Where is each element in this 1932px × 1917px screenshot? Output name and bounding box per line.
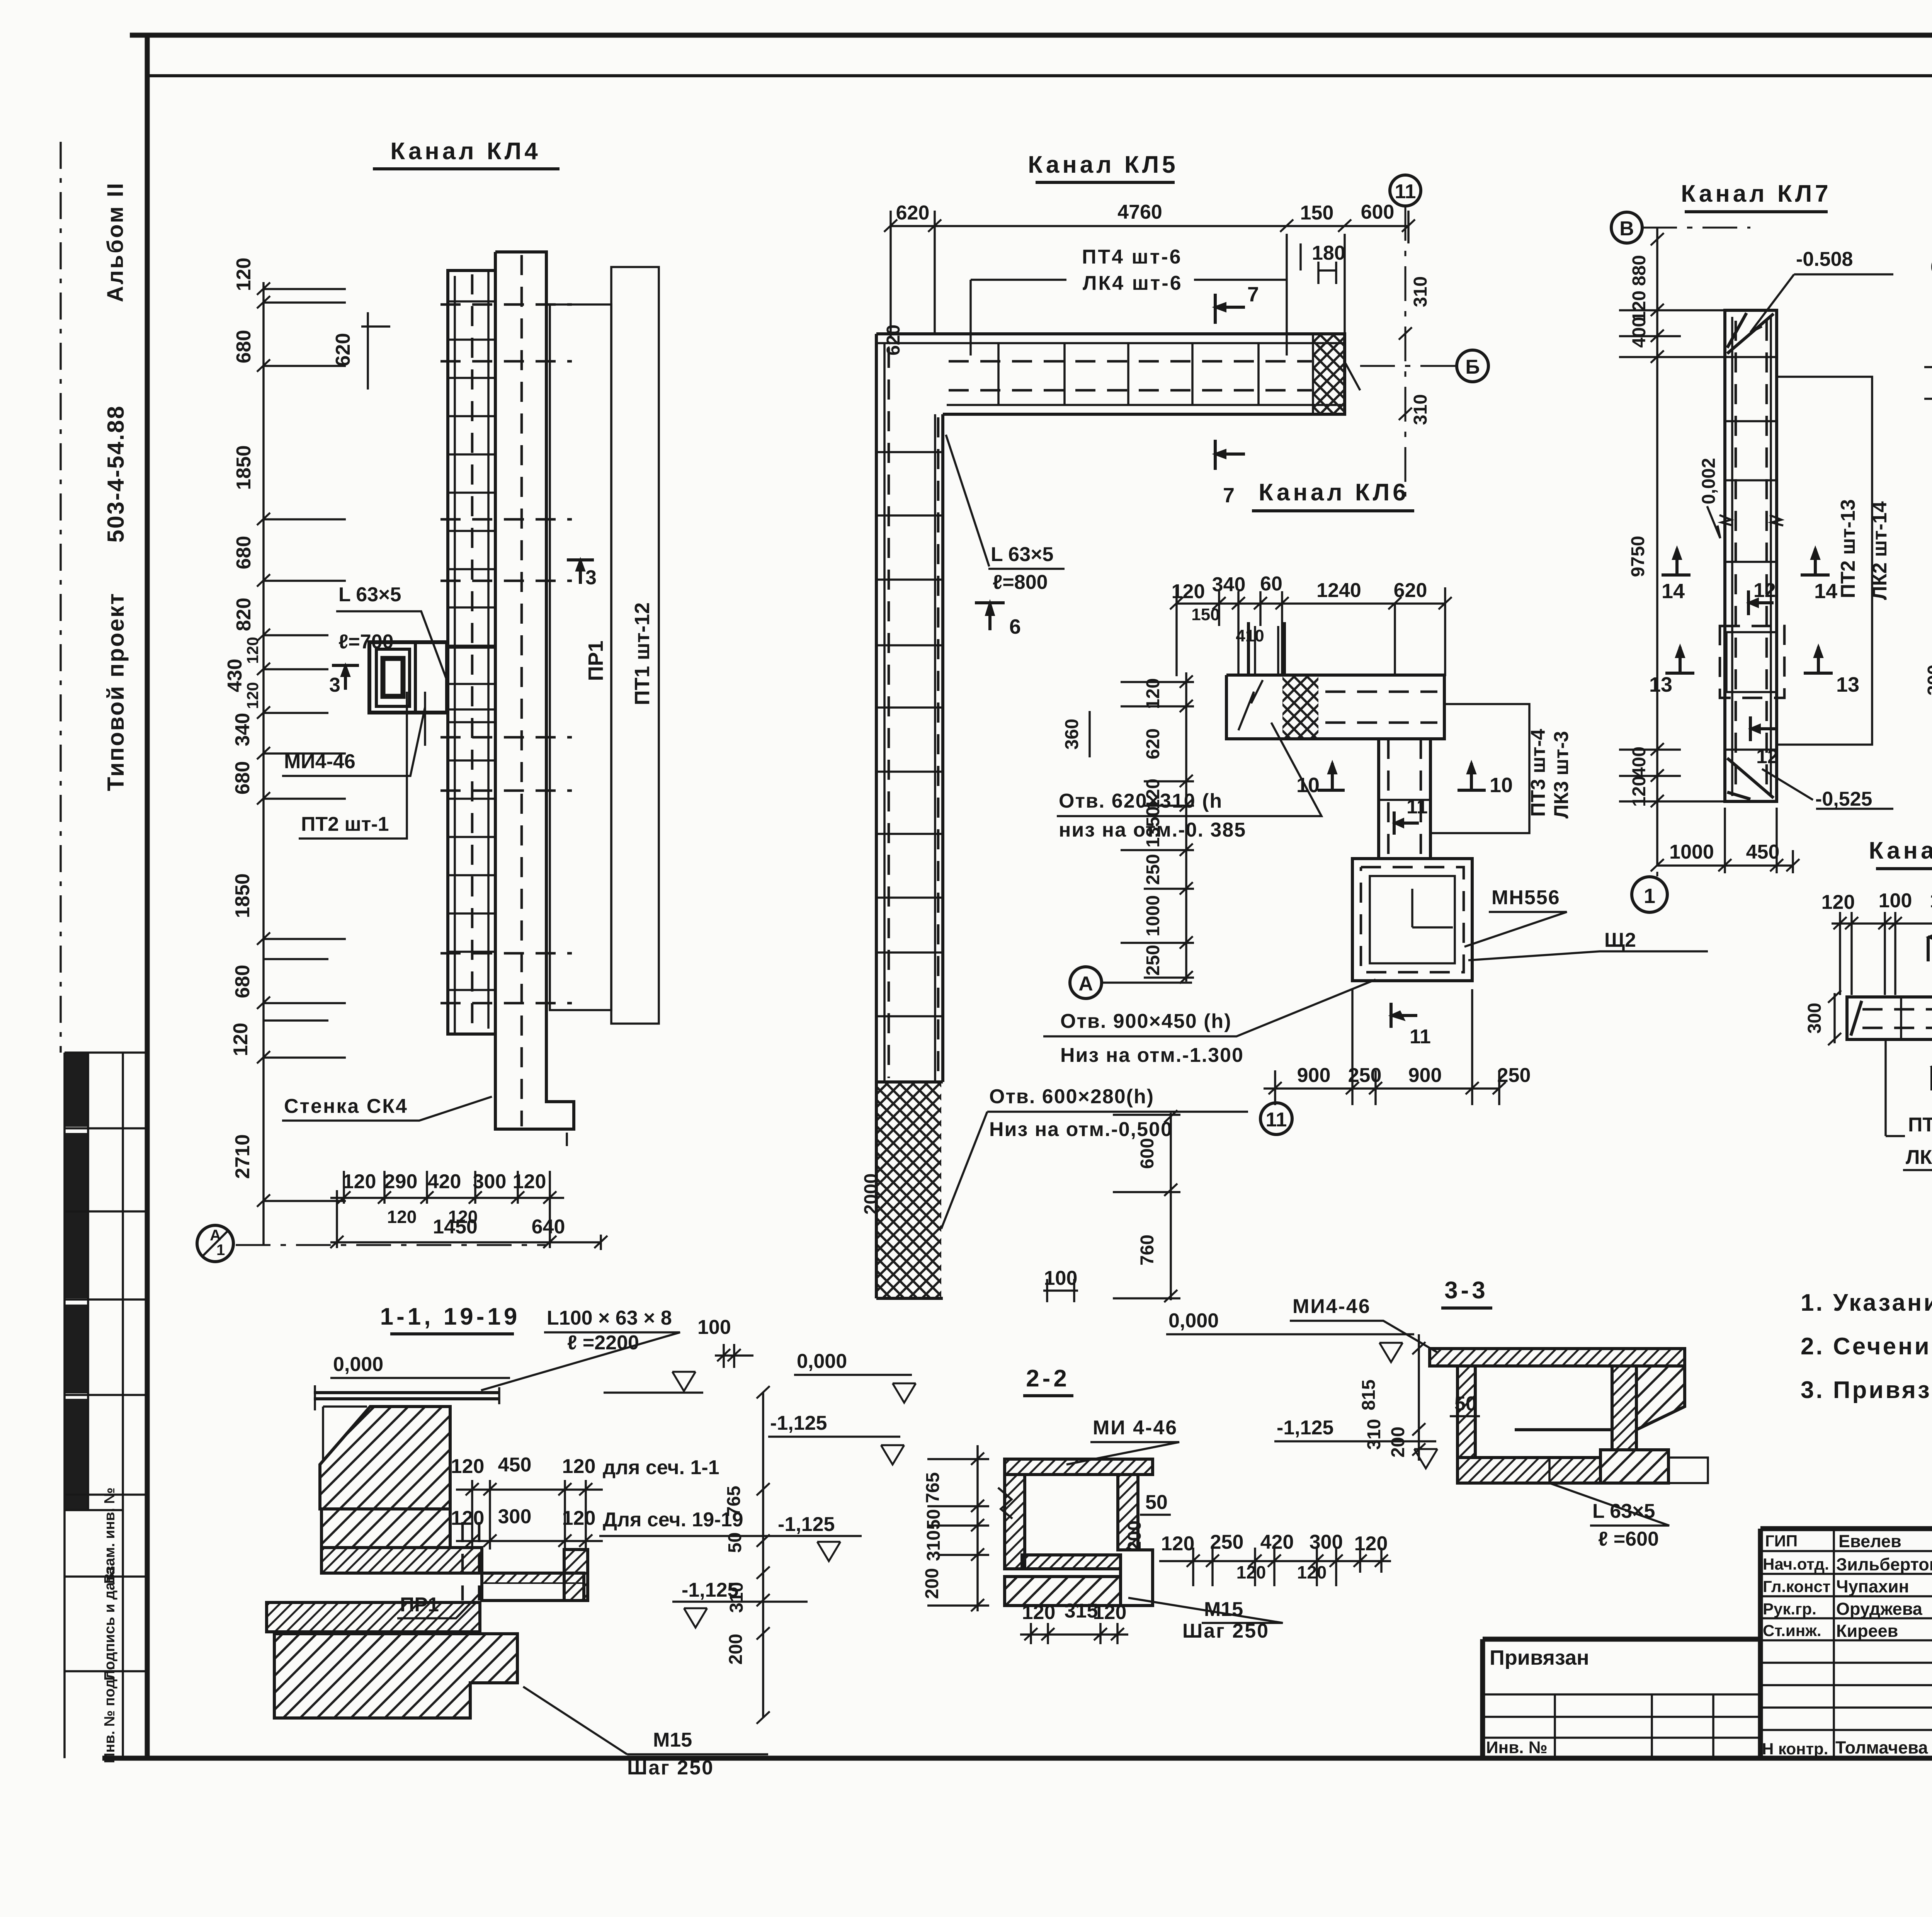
svg-text:300: 300 — [1310, 1531, 1343, 1553]
svg-text:ℓ=800: ℓ=800 — [993, 571, 1048, 594]
svg-text:50: 50 — [1454, 1393, 1477, 1415]
svg-text:для сеч. 1-1: для сеч. 1-1 — [603, 1456, 719, 1479]
svg-text:450: 450 — [1746, 841, 1780, 863]
svg-text:ЛК1шт-3: ЛК1шт-3 — [1906, 1146, 1932, 1169]
svg-text:680: 680 — [231, 965, 254, 998]
svg-text:Чупахин: Чупахин — [1836, 1577, 1909, 1596]
svg-text:420: 420 — [1260, 1531, 1294, 1553]
svg-text:600: 600 — [1361, 201, 1395, 223]
svg-text:120: 120 — [562, 1507, 596, 1529]
svg-text:М15: М15 — [1204, 1598, 1243, 1621]
svg-text:ℓ=700: ℓ=700 — [338, 631, 394, 653]
svg-text:3: 3 — [329, 674, 340, 696]
svg-text:640: 640 — [532, 1216, 565, 1238]
svg-text:Для сеч. 19-19: Для сеч. 19-19 — [603, 1509, 743, 1531]
svg-text:Нач.отд.: Нач.отд. — [1763, 1555, 1829, 1573]
svg-text:400: 400 — [1629, 747, 1650, 777]
svg-text:120: 120 — [1161, 1533, 1195, 1555]
svg-text:13: 13 — [1649, 673, 1672, 696]
svg-text:ЛК4 шт-6: ЛК4 шт-6 — [1083, 272, 1183, 294]
svg-text:ГИП: ГИП — [1765, 1532, 1798, 1550]
svg-text:11: 11 — [1266, 1109, 1287, 1131]
svg-text:250: 250 — [1497, 1064, 1531, 1087]
svg-text:Типовой проект: Типовой проект — [103, 592, 129, 791]
svg-text:120: 120 — [243, 682, 262, 709]
svg-text:10: 10 — [1490, 774, 1513, 797]
svg-text:ПР1: ПР1 — [400, 1594, 439, 1616]
svg-text:120: 120 — [1821, 891, 1855, 913]
svg-text:880: 880 — [1629, 255, 1650, 286]
svg-text:3. Привязку каналов КЛ8 ÷ КЛ: 3. Привязку каналов КЛ8 ÷ КЛ10 см. лист … — [1801, 1377, 1932, 1403]
svg-text:60: 60 — [1260, 573, 1282, 595]
svg-text:120: 120 — [230, 1023, 252, 1056]
svg-text:300: 300 — [1804, 1003, 1825, 1034]
svg-text:ПР1: ПР1 — [584, 641, 607, 681]
svg-text:-0,525: -0,525 — [1815, 788, 1872, 810]
svg-text:340: 340 — [231, 713, 254, 747]
svg-text:низ на отм.-0. 385: низ на отм.-0. 385 — [1059, 819, 1246, 841]
svg-text:300: 300 — [1924, 665, 1932, 696]
svg-text:2000: 2000 — [861, 1174, 881, 1215]
svg-text:1: 1 — [216, 1242, 225, 1259]
svg-text:1: 1 — [1644, 885, 1655, 908]
svg-text:250: 250 — [1348, 1064, 1382, 1087]
svg-text:14: 14 — [1814, 580, 1837, 603]
svg-text:120: 120 — [1629, 776, 1650, 807]
svg-text:50: 50 — [923, 1509, 944, 1529]
svg-text:Рук.гр.: Рук.гр. — [1763, 1600, 1816, 1618]
svg-text:ЛК2 шт-14: ЛК2 шт-14 — [1869, 501, 1891, 600]
svg-text:А: А — [1078, 973, 1093, 995]
svg-text:Гл.конст: Гл.конст — [1763, 1577, 1831, 1596]
svg-text:Привязан: Привязан — [1490, 1646, 1589, 1669]
svg-text:0,000: 0,000 — [1168, 1310, 1219, 1332]
svg-text:300: 300 — [473, 1170, 507, 1193]
svg-text:-1,125: -1,125 — [778, 1513, 835, 1536]
svg-text:1850: 1850 — [233, 445, 255, 490]
svg-text:Отв. 600×280(h): Отв. 600×280(h) — [989, 1085, 1154, 1108]
svg-text:250: 250 — [1143, 945, 1163, 976]
svg-text:7: 7 — [1223, 484, 1235, 507]
svg-text:900: 900 — [1408, 1064, 1442, 1087]
svg-text:250: 250 — [1143, 854, 1163, 885]
svg-text:1850: 1850 — [231, 873, 254, 918]
svg-text:ЛК3 шт-3: ЛК3 шт-3 — [1550, 731, 1573, 819]
svg-text:10: 10 — [1296, 774, 1320, 797]
svg-text:4760: 4760 — [1117, 201, 1162, 223]
svg-text:900: 900 — [1297, 1064, 1331, 1087]
svg-text:620: 620 — [883, 325, 904, 356]
svg-text:0,000: 0,000 — [797, 1350, 847, 1373]
svg-text:680: 680 — [233, 330, 255, 364]
svg-text:1-1, 19-19: 1-1, 19-19 — [380, 1303, 520, 1330]
svg-text:620: 620 — [1394, 579, 1427, 602]
svg-text:620: 620 — [332, 333, 354, 367]
svg-text:2710: 2710 — [231, 1134, 254, 1179]
svg-text:310: 310 — [1410, 276, 1431, 307]
svg-text:11: 11 — [1406, 796, 1428, 818]
svg-text:Оруджева: Оруджева — [1836, 1599, 1923, 1619]
svg-text:М15: М15 — [653, 1729, 692, 1751]
svg-text:МИ 4-46: МИ 4-46 — [1093, 1417, 1178, 1439]
svg-text:Инв. №: Инв. № — [1486, 1738, 1548, 1757]
svg-text:1000: 1000 — [1143, 895, 1163, 937]
svg-text:100: 100 — [1044, 1267, 1078, 1289]
svg-text:Канал КЛ 10: Канал КЛ 10 — [1869, 837, 1932, 864]
svg-text:360: 360 — [1062, 719, 1082, 750]
svg-text:ПТ3 шт-4: ПТ3 шт-4 — [1527, 729, 1549, 817]
svg-text:503-4-54.88: 503-4-54.88 — [103, 405, 129, 543]
svg-text:МН556: МН556 — [1492, 886, 1560, 909]
svg-text:Киреев: Киреев — [1836, 1621, 1898, 1641]
svg-text:420: 420 — [428, 1170, 461, 1193]
svg-text:ПТ1шт-2: ПТ1шт-2 — [1908, 1114, 1932, 1136]
svg-text:120: 120 — [562, 1455, 596, 1478]
svg-text:1. Указания даны на листе 9: 1. Указания даны на листе 9 — [1801, 1289, 1932, 1316]
svg-text:-0.508: -0.508 — [1796, 248, 1853, 270]
svg-text:400: 400 — [1629, 317, 1650, 348]
svg-text:2-2: 2-2 — [1026, 1365, 1070, 1392]
svg-text:200: 200 — [922, 1568, 942, 1599]
svg-text:Отв. 620×310 (h: Отв. 620×310 (h — [1059, 790, 1223, 812]
svg-text:3: 3 — [585, 566, 597, 589]
svg-text:120: 120 — [387, 1207, 417, 1227]
svg-text:11: 11 — [1395, 180, 1416, 203]
svg-text:ПТ1 шт-12: ПТ1 шт-12 — [631, 602, 654, 705]
svg-text:680: 680 — [231, 761, 254, 795]
svg-text:200: 200 — [726, 1634, 746, 1665]
svg-text:Низ на отм.-0,500: Низ на отм.-0,500 — [989, 1118, 1173, 1141]
svg-text:290: 290 — [384, 1170, 418, 1193]
svg-text:760: 760 — [1137, 1235, 1158, 1266]
svg-text:430: 430 — [224, 659, 246, 692]
svg-text:МИ4-46: МИ4-46 — [1293, 1295, 1371, 1318]
svg-text:2. Сечение 6-6 ÷ 13-13 даны: 2. Сечение 6-6 ÷ 13-13 даны на листе 13. — [1801, 1333, 1932, 1360]
svg-text:150: 150 — [1300, 202, 1334, 224]
svg-text:680: 680 — [233, 536, 255, 570]
svg-text:120: 120 — [451, 1507, 485, 1529]
svg-text:ПТ2 шт-1: ПТ2 шт-1 — [301, 813, 389, 835]
svg-text:3-3: 3-3 — [1444, 1277, 1488, 1304]
svg-text:Щ2: Щ2 — [1604, 929, 1636, 951]
svg-text:6: 6 — [1009, 615, 1021, 638]
svg-text:МИ4-46: МИ4-46 — [284, 750, 355, 773]
svg-text:Шаг 250: Шаг 250 — [627, 1757, 714, 1779]
svg-text:620: 620 — [896, 202, 930, 224]
svg-text:450: 450 — [498, 1454, 532, 1476]
svg-text:815: 815 — [1359, 1379, 1379, 1410]
svg-text:ПТ4 шт-6: ПТ4 шт-6 — [1082, 246, 1182, 268]
svg-text:1450: 1450 — [433, 1216, 478, 1238]
svg-text:Шаг 250: Шаг 250 — [1182, 1620, 1269, 1642]
svg-text:Зильбертов: Зильбертов — [1836, 1555, 1932, 1574]
svg-text:Канал КЛ6: Канал КЛ6 — [1259, 479, 1409, 506]
svg-text:12: 12 — [1756, 745, 1779, 768]
svg-text:60: 60 — [1930, 256, 1932, 278]
svg-text:100: 100 — [1879, 890, 1912, 912]
svg-text:L 63×5: L 63×5 — [1592, 1500, 1655, 1522]
svg-text:120: 120 — [451, 1455, 485, 1478]
svg-text:765: 765 — [923, 1472, 943, 1503]
svg-text:1240: 1240 — [1316, 579, 1361, 602]
svg-text:Альбом II: Альбом II — [103, 182, 128, 302]
svg-text:В: В — [1619, 218, 1634, 240]
svg-text:Канал КЛ7: Канал КЛ7 — [1681, 180, 1831, 207]
svg-text:Толмачева: Толмачева — [1835, 1738, 1928, 1757]
svg-text:12: 12 — [1753, 579, 1776, 602]
svg-text:120: 120 — [343, 1170, 376, 1193]
svg-text:Канал КЛ4: Канал КЛ4 — [390, 138, 541, 165]
svg-text:150: 150 — [1191, 605, 1219, 624]
svg-text:180: 180 — [1312, 242, 1345, 264]
svg-text:310: 310 — [1410, 394, 1431, 425]
svg-text:120: 120 — [1143, 678, 1163, 709]
svg-text:Евелев: Евелев — [1838, 1531, 1901, 1551]
svg-text:0,002: 0,002 — [1699, 458, 1719, 504]
svg-text:ℓ =2200: ℓ =2200 — [567, 1332, 639, 1354]
svg-text:11: 11 — [1410, 1026, 1431, 1048]
svg-text:-1,125: -1,125 — [770, 1412, 827, 1434]
svg-text:Ст.инж.: Ст.инж. — [1763, 1621, 1821, 1640]
svg-text:1500: 1500 — [1930, 890, 1932, 912]
svg-text:Подпись и дата: Подпись и дата — [102, 1567, 118, 1681]
svg-text:-1,125: -1,125 — [1277, 1417, 1333, 1439]
svg-text:9750: 9750 — [1628, 536, 1648, 577]
svg-text:100: 100 — [697, 1316, 731, 1339]
svg-text:L 63×5: L 63×5 — [338, 583, 401, 606]
svg-text:Б: Б — [1465, 356, 1480, 378]
svg-text:L 63×5: L 63×5 — [991, 543, 1053, 566]
svg-text:0,000: 0,000 — [333, 1353, 383, 1376]
svg-text:1000: 1000 — [1669, 841, 1714, 863]
svg-text:-1,125: -1,125 — [682, 1579, 738, 1601]
svg-text:300: 300 — [498, 1505, 532, 1528]
svg-text:50: 50 — [1145, 1491, 1168, 1514]
svg-text:14: 14 — [1662, 580, 1685, 603]
svg-text:ℓ =600: ℓ =600 — [1598, 1528, 1659, 1550]
svg-text:120: 120 — [243, 637, 262, 664]
svg-text:200: 200 — [1388, 1427, 1408, 1458]
svg-text:Стенка СК4: Стенка СК4 — [284, 1095, 408, 1118]
svg-text:120: 120 — [1022, 1601, 1056, 1624]
svg-text:820: 820 — [233, 598, 255, 631]
svg-text:13: 13 — [1836, 673, 1859, 696]
svg-text:Инв. № подл.: Инв. № подл. — [102, 1666, 118, 1763]
svg-text:250: 250 — [1210, 1531, 1244, 1553]
svg-text:600: 600 — [1137, 1138, 1158, 1169]
svg-text:7: 7 — [1247, 283, 1259, 306]
svg-text:Низ на отм.-1.300: Низ на отм.-1.300 — [1060, 1044, 1244, 1067]
svg-text:120: 120 — [233, 258, 255, 291]
svg-text:620: 620 — [1143, 728, 1163, 759]
svg-text:310: 310 — [923, 1530, 944, 1561]
svg-text:765: 765 — [724, 1486, 744, 1517]
svg-text:120: 120 — [1093, 1601, 1127, 1624]
svg-text:200: 200 — [1124, 1521, 1145, 1551]
svg-text:L100 × 63 × 8: L100 × 63 × 8 — [547, 1307, 672, 1329]
svg-text:Канал КЛ5: Канал КЛ5 — [1028, 151, 1178, 178]
svg-text:ПТ2 шт-13: ПТ2 шт-13 — [1837, 499, 1859, 598]
svg-text:310: 310 — [1364, 1419, 1384, 1450]
svg-text:340: 340 — [1212, 573, 1246, 596]
svg-text:Отв. 900×450 (h): Отв. 900×450 (h) — [1060, 1010, 1232, 1032]
svg-text:Н контр.: Н контр. — [1762, 1740, 1828, 1758]
